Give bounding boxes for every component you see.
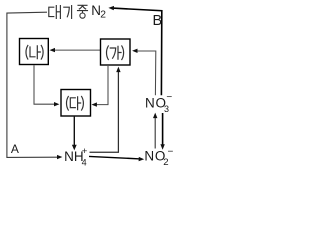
- wire NH4+ right, up into (가) bottom: [90, 71, 119, 152]
- arrowhead into (가) right side: [132, 49, 137, 53]
- wire (나) down-right to (다): [34, 65, 56, 104]
- svg-text:2: 2: [100, 9, 106, 20]
- wire (가) left to (나): [54, 49, 100, 51]
- hangul 기: [64, 6, 72, 19]
- arrowhead into NH4+ (A path): [57, 155, 62, 159]
- hangul 중: [78, 5, 88, 18]
- arrowhead into (다) left side: [54, 102, 59, 106]
- wire B-path: NO3- up right side to N2: [113, 8, 162, 95]
- wire NO3- down to NO2-: [162, 113, 164, 146]
- arrowhead into N2 (B path): [108, 6, 114, 10]
- arrowhead into NH4+ top: [72, 145, 77, 151]
- svg-text:4: 4: [82, 158, 87, 168]
- svg-text:−: −: [166, 92, 172, 103]
- wire NO2- up to NO3-: [154, 117, 156, 149]
- label (다) hangul: [67, 97, 84, 111]
- svg-text:3: 3: [164, 104, 169, 114]
- arrowhead into (가) bottom: [116, 67, 120, 73]
- svg-text:A: A: [11, 142, 19, 156]
- box (다): [61, 90, 91, 117]
- svg-text:−: −: [168, 147, 174, 158]
- svg-text:B: B: [153, 13, 163, 29]
- wire NO3- to (가) box: [136, 51, 156, 95]
- svg-text:+: +: [82, 146, 88, 157]
- label (가) hangul: [107, 46, 124, 60]
- arrowhead into (다) right side: [91, 102, 97, 106]
- arrowhead into NO2- left: [139, 157, 145, 161]
- arrowhead into NO2- top: [160, 144, 164, 150]
- hangul 대: [49, 6, 61, 19]
- svg-text:2: 2: [163, 157, 168, 168]
- arrowhead into (나) right side: [50, 48, 56, 52]
- wire NH4+ to NO2-: [89, 156, 140, 159]
- wire (다) down to NH4+: [73, 117, 75, 146]
- wire A-path: from N2 text left, down left side, to NH4+: [7, 12, 58, 157]
- wire (가) down-left to (다): [95, 66, 108, 105]
- box (가): [101, 39, 131, 65]
- box (나): [20, 39, 49, 65]
- label (나) hangul: [26, 46, 43, 60]
- arrowhead into NO3- bottom: [153, 113, 157, 119]
